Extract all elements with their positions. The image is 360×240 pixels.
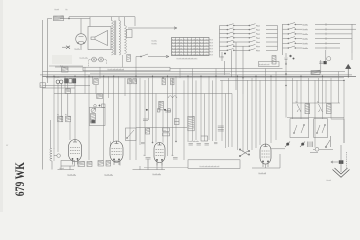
potentiometer P3 (285, 142, 290, 148)
wire left rail (43, 19, 48, 170)
resistor R4 (65, 89, 71, 94)
speaker box (88, 27, 111, 50)
components under tube V2 (61, 161, 92, 167)
tube V2 label (68, 174, 75, 176)
switch row S6 (220, 44, 278, 47)
junction dots (53, 63, 344, 86)
cap small b (168, 109, 171, 112)
switch box K3 (126, 128, 137, 141)
table caption left (152, 40, 156, 44)
switch S-net + arrow (136, 54, 169, 58)
transformer T1 winding a (112, 21, 114, 55)
terminal TA box (40, 83, 46, 88)
switch row S5 (220, 40, 278, 43)
wire pot drops (58, 83, 75, 116)
choke L1 winding (125, 26, 127, 54)
potentiometer P2 cluster (89, 104, 105, 126)
components under tube V3 (98, 161, 120, 167)
tube V4 label (153, 174, 160, 176)
chassis box (188, 160, 240, 169)
resistor R3 (272, 56, 276, 65)
table caption bottom (177, 58, 197, 59)
cross chassis mark (62, 46, 70, 49)
bus line 1b (170, 68, 283, 70)
tube V3 UBF11 (110, 141, 123, 165)
switch row W3 (283, 32, 353, 35)
bus line 2 (43, 71, 346, 73)
junction blobs (146, 109, 166, 111)
tube V3 label (105, 174, 112, 176)
switch bank center rail (219, 26, 221, 58)
cap small a (157, 109, 160, 112)
wire arrow A (128, 27, 177, 29)
top small row near tubes (141, 141, 217, 144)
transformer T1 winding b (119, 21, 121, 55)
wire top-left (48, 17, 136, 27)
resistor R1 (54, 9, 68, 21)
switch row W6 (283, 46, 341, 49)
switch row S3 (220, 32, 278, 35)
trimmer pair (175, 119, 180, 125)
box small mid (201, 136, 208, 141)
switch bank right rail (282, 24, 284, 55)
svg-text:679 WK: 679 WK (12, 162, 27, 197)
rectifier circle (327, 57, 331, 61)
bus right mid 2 (293, 102, 341, 104)
capacitor C14 (143, 119, 148, 120)
capacitor C12 C13 (218, 126, 224, 131)
bus line 3 (90, 72, 230, 74)
switch bank center right rail (277, 26, 279, 51)
choke L1 tap box (127, 30, 133, 38)
resistor R8 R9 (162, 78, 174, 85)
capacitor C11 (165, 111, 171, 113)
wire verticals group A (54, 53, 352, 160)
title 679 WK (12, 162, 27, 197)
capacitor C16 (172, 155, 178, 159)
capacitor C-bank (221, 52, 226, 61)
switch box K1 (290, 119, 309, 138)
switch box K2 (314, 119, 328, 138)
paper shading (52, 55, 72, 64)
potentiometer P1 cluster (55, 77, 76, 84)
electrolytic dark square (324, 61, 327, 64)
wire to ground (331, 145, 347, 172)
capacitor C19 (163, 133, 170, 136)
transformer T1 core (115, 21, 116, 56)
switch row S1 (220, 24, 278, 27)
IF coil L4 (50, 120, 54, 170)
wire transformer top (112, 17, 136, 26)
resistor R10 (97, 94, 103, 99)
jack J1 (313, 147, 333, 151)
switch row S2 (220, 28, 278, 31)
bus line 4 (40, 74, 352, 76)
tube V5 label (259, 173, 265, 175)
table voltages (172, 38, 213, 56)
resistor R15 (146, 128, 150, 134)
wire right top drops (319, 50, 326, 73)
wire bank drops (225, 42, 244, 94)
capacitor pair C20 (308, 142, 313, 148)
switch row S4 (220, 36, 278, 39)
wire tube V5 bottom (252, 154, 280, 168)
tube V1 (round) (76, 19, 87, 51)
lamp labels (80, 57, 87, 58)
switch bank right far rail (351, 24, 353, 53)
resistor R14 (159, 101, 164, 110)
bus line 7 (220, 79, 344, 81)
ground arrow down (333, 168, 350, 177)
resistor cluster RC2 (318, 101, 332, 113)
potentiometer P4 (300, 142, 305, 148)
lamp wiring (89, 60, 107, 68)
antenna arrow (346, 64, 351, 77)
cable shield box (83, 67, 170, 71)
switch row W1 (283, 23, 357, 26)
resistor R6 R7 (128, 79, 137, 84)
resistor R2 vertical (127, 55, 131, 62)
electrolytic C10 (285, 53, 295, 63)
resistor R12 R13 pair (58, 114, 71, 122)
bus line 0 (49, 65, 83, 67)
lamp La2 (99, 57, 104, 62)
resistor R11 (311, 70, 320, 74)
tube V4 UCL11 (154, 143, 165, 166)
wire right bottom (271, 119, 344, 153)
resistor R5 (94, 79, 98, 85)
wire bottom 3 (144, 167, 188, 169)
bus line 6 (46, 77, 344, 79)
coil L2 (168, 96, 177, 98)
trimmer circle (54, 154, 61, 158)
resistor cluster RC1 (296, 101, 310, 113)
tube V5 UY11 (260, 144, 271, 167)
capacitor row C17 (188, 141, 209, 145)
switch row W2 (283, 27, 357, 30)
switch row S7 (220, 49, 278, 52)
capacitor C18 (163, 128, 170, 131)
switch S3 (325, 136, 330, 148)
wire bottom 1 (58, 166, 75, 170)
lamp La1 (92, 57, 97, 62)
bus line 1 (55, 66, 83, 68)
label near ground arrow (327, 180, 330, 181)
switch row W5 (283, 41, 341, 44)
label box center (259, 62, 280, 67)
switch S2 output (239, 149, 249, 157)
tube V2 UCH11 (69, 140, 82, 165)
wire bottom 2 (133, 163, 166, 170)
paper fleck (6, 143, 9, 147)
tube V1 label (75, 48, 79, 50)
capacitor C15 (144, 155, 151, 163)
bus right mid 1 (287, 117, 344, 119)
bus line 8 (43, 86, 91, 89)
connector square (339, 160, 344, 164)
component X1 (61, 65, 69, 72)
wire mid horizontal (136, 127, 187, 129)
bus line 5 (main) (43, 75, 357, 77)
chassis line (54, 93, 232, 95)
coil L3 (188, 116, 194, 131)
switch row W4 (283, 37, 353, 40)
